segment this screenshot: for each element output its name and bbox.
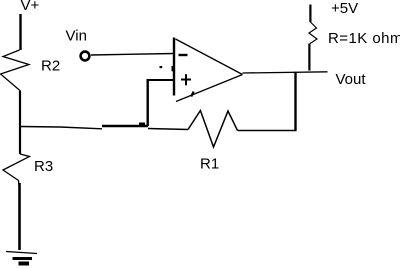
svg-text:R2: R2 [41, 58, 60, 75]
tick on bottom edge [191, 92, 194, 97]
wire R to output node [308, 44, 310, 71]
svg-text:R=1K ohm: R=1K ohm [328, 30, 400, 47]
ground [6, 252, 37, 254]
input terminal circle [81, 52, 90, 61]
resistor R1 [188, 111, 238, 148]
svg-text:R3: R3 [34, 158, 53, 175]
op-amp output wire [243, 72, 328, 73]
op-amp minus symbol [179, 54, 188, 56]
wire to non-inverting input (horizontal) [147, 79, 175, 81]
wire R1 to feedback corner [238, 130, 297, 132]
resistor R2 [1, 50, 30, 91]
bottom node wire right thin [148, 129, 188, 130]
bottom node wire thick [102, 125, 148, 128]
stray dot [160, 66, 163, 68]
svg-text:V+: V+ [21, 0, 40, 14]
svg-text:+5V: +5V [331, 0, 358, 17]
wire to non-inverting input (vertical) [146, 80, 148, 126]
wire R3 to ground [18, 183, 21, 250]
wire from +5V down [309, 5, 311, 23]
op-amp U1 top edge [176, 39, 243, 75]
small square mark on left edge [172, 66, 175, 71]
wire R2 to node A [19, 91, 21, 154]
svg-text:Vin: Vin [66, 28, 87, 45]
op-amp plus symbol [181, 79, 191, 81]
wire from V+ down to R2 [19, 14, 21, 50]
op-amp U1 left edge [173, 38, 175, 96]
junction blob [139, 123, 145, 127]
feedback wire vertical [294, 72, 296, 131]
svg-text:Vout: Vout [336, 71, 367, 88]
resistor R3 [3, 154, 30, 186]
resistor R (1K) [309, 22, 317, 44]
wire Vin to op-amp inverting input [91, 54, 174, 56]
svg-text:R1: R1 [200, 156, 219, 173]
op-amp U1 bottom edge [176, 75, 243, 102]
bottom node wire left thin [20, 127, 102, 129]
